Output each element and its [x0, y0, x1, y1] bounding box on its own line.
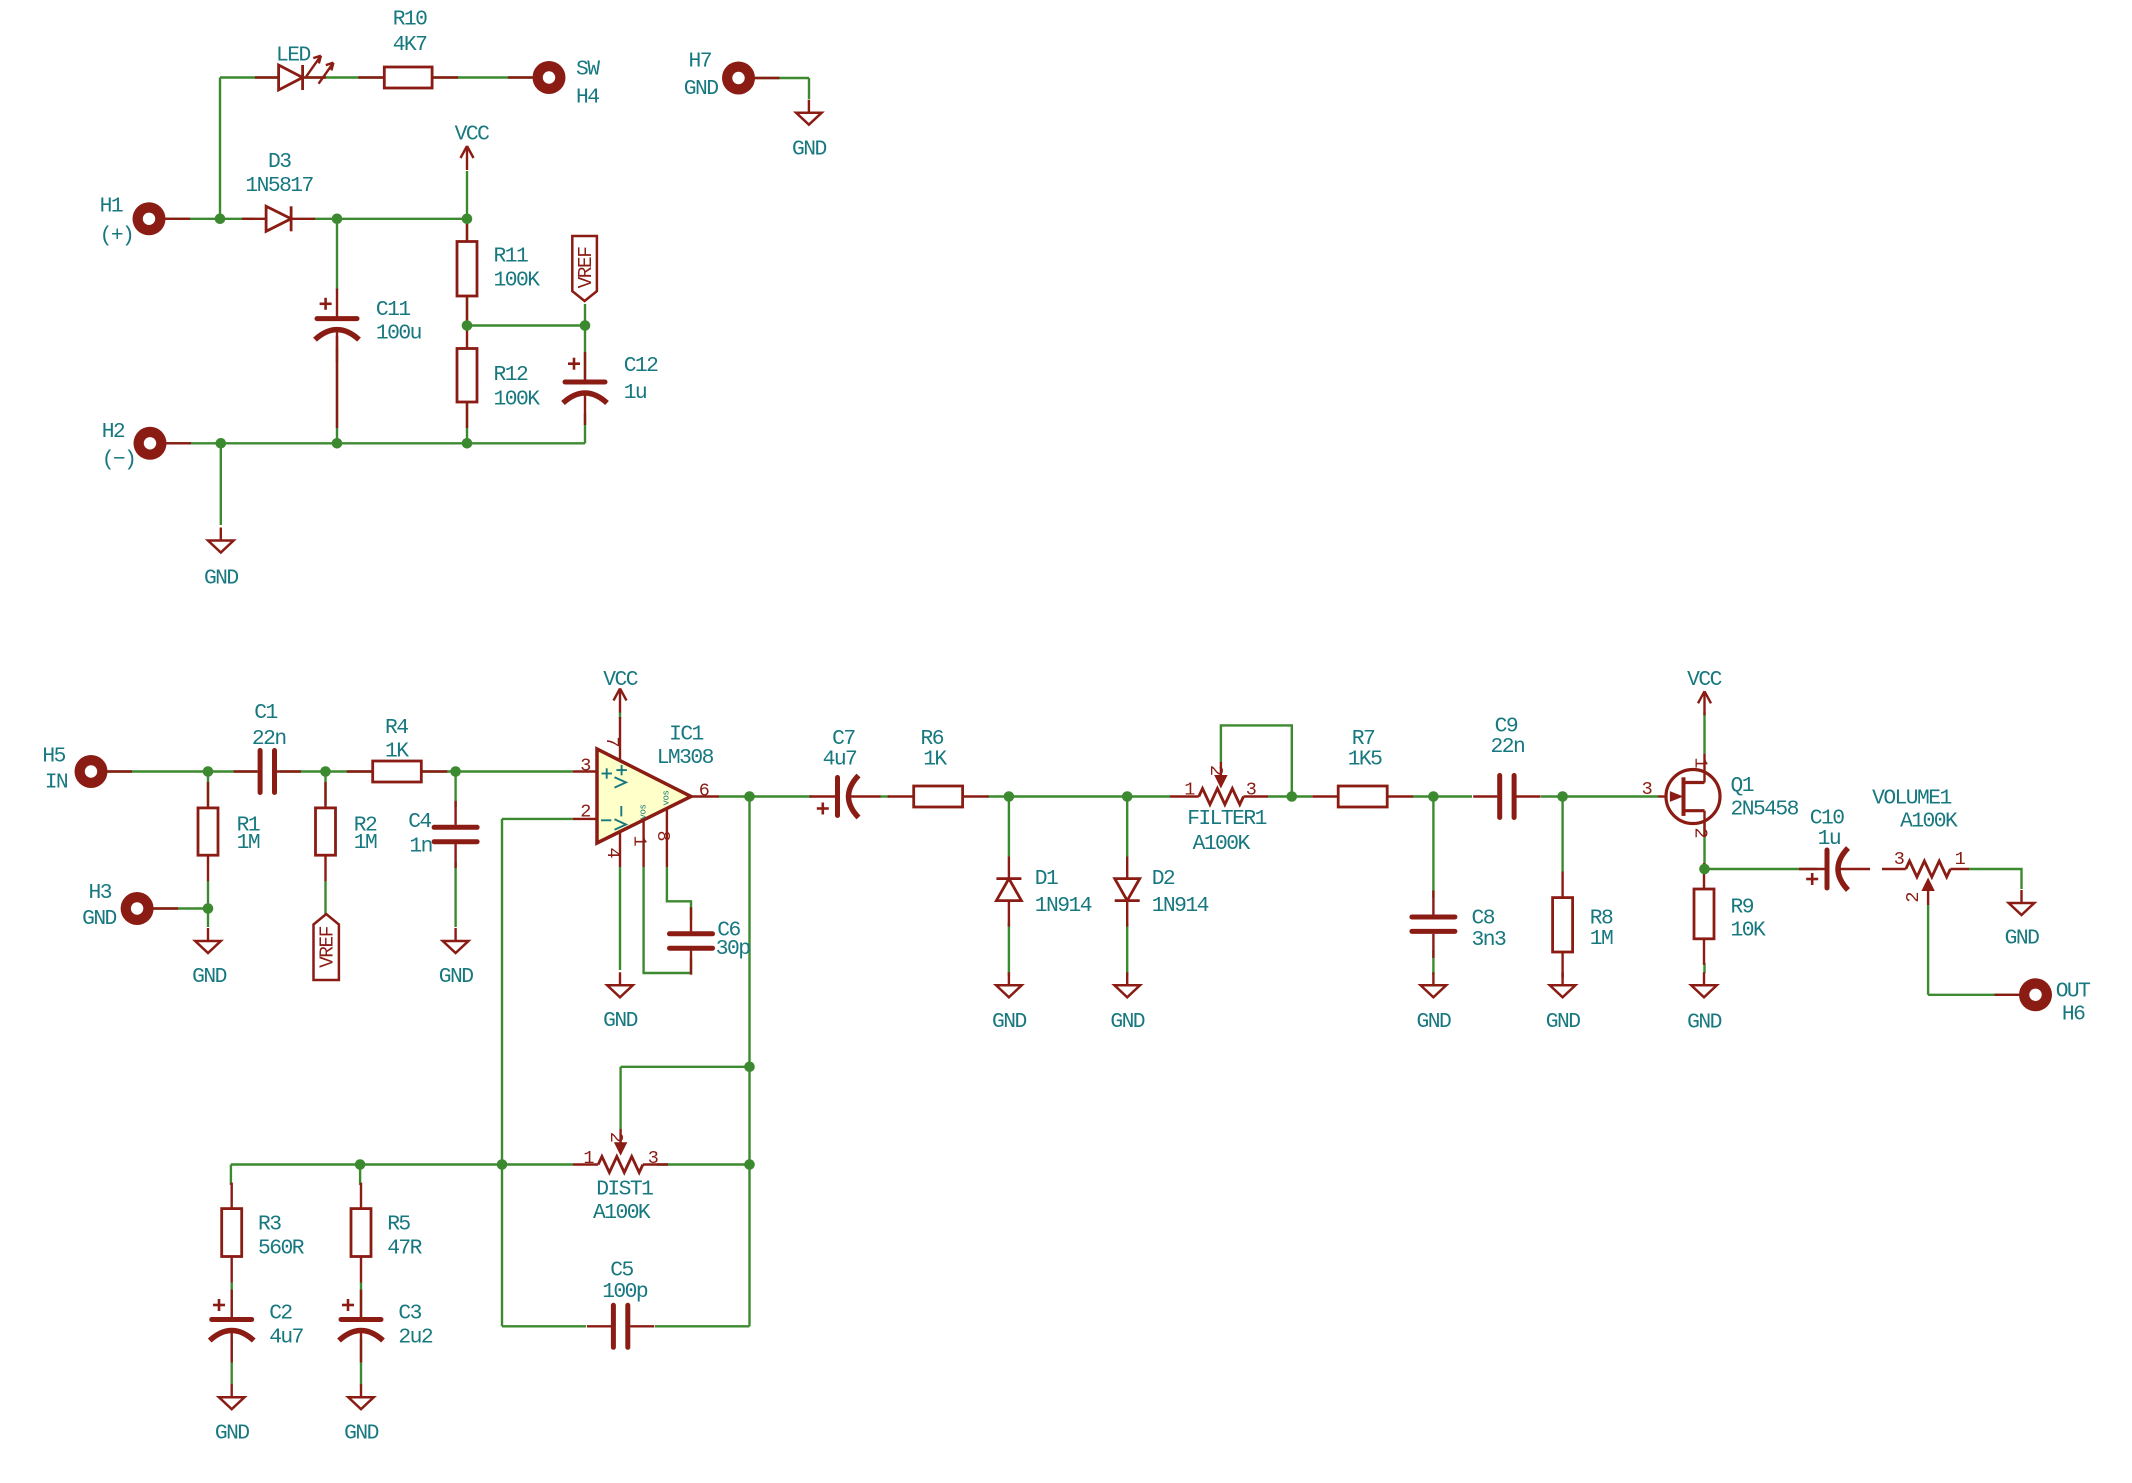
ground (D2) — [1114, 972, 1140, 997]
svg-text:22n: 22n — [252, 727, 286, 751]
wire — [584, 326, 586, 380]
svg-text:H7: H7 — [689, 49, 712, 73]
svg-text:C4: C4 — [408, 810, 431, 834]
svg-text:2N5458: 2N5458 — [1731, 797, 1799, 821]
svg-text:H1: H1 — [100, 195, 123, 219]
svg-text:6: 6 — [699, 781, 710, 802]
wire — [230, 1165, 232, 1186]
ground (R8) — [1550, 972, 1576, 997]
svg-text:1: 1 — [1690, 757, 1711, 768]
junction — [216, 438, 227, 449]
svg-text:1M: 1M — [1590, 927, 1613, 951]
op-amp IC1 LM308 — [573, 717, 719, 867]
resistor R5 — [351, 1183, 371, 1283]
svg-text:VREF: VREF — [316, 926, 338, 968]
svg-text:VCC: VCC — [603, 668, 637, 692]
wire — [621, 1066, 750, 1068]
svg-text:1: 1 — [629, 835, 650, 846]
svg-text:2: 2 — [1205, 765, 1226, 776]
junction — [355, 1159, 366, 1170]
wire — [324, 772, 326, 806]
svg-text:3: 3 — [648, 1148, 659, 1169]
wire — [655, 1325, 750, 1327]
wire — [219, 78, 221, 219]
junction — [1699, 864, 1710, 875]
svg-text:C3: C3 — [398, 1301, 421, 1325]
svg-text:8: 8 — [652, 830, 673, 841]
svg-text:47R: 47R — [387, 1237, 422, 1261]
svg-text:GND: GND — [2005, 926, 2039, 950]
svg-text:VREF: VREF — [575, 247, 597, 289]
global label VREF (power section) — [572, 236, 597, 301]
svg-text:GND: GND — [792, 137, 826, 161]
ground (R1) — [195, 928, 221, 953]
wire — [466, 171, 468, 219]
svg-text:2: 2 — [605, 1132, 626, 1143]
svg-text:IN: IN — [45, 771, 68, 795]
wire — [1541, 795, 1658, 797]
resistor R4 — [347, 761, 448, 782]
pad H1 (+) — [133, 202, 191, 235]
svg-text:1M: 1M — [237, 831, 260, 855]
wire — [1561, 973, 1563, 976]
svg-text:22n: 22n — [1491, 735, 1525, 759]
wire — [220, 76, 532, 78]
svg-text:C11: C11 — [376, 298, 410, 322]
wire — [880, 795, 889, 797]
wire — [1008, 797, 1010, 858]
wire — [502, 1325, 586, 1327]
junction — [580, 320, 591, 331]
pad H3 GND — [121, 892, 179, 925]
power flag VCC (IC1) — [614, 689, 627, 713]
svg-text:30p: 30p — [716, 937, 750, 961]
wire — [1703, 863, 1705, 869]
junction — [462, 438, 473, 449]
svg-text:GND: GND — [603, 1009, 637, 1033]
svg-text:2: 2 — [580, 802, 591, 823]
junction — [497, 1159, 508, 1170]
resistor R3 — [222, 1183, 242, 1283]
wire — [466, 349, 468, 403]
svg-text:A100K: A100K — [593, 1201, 651, 1225]
wire — [719, 795, 812, 797]
svg-text:1K: 1K — [923, 747, 947, 771]
wire — [207, 772, 209, 806]
wire — [667, 867, 691, 920]
global label VREF (R2) — [314, 914, 339, 980]
resistor R2 — [316, 782, 336, 881]
capacitor C11 100u — [315, 289, 359, 362]
svg-text:1N914: 1N914 — [1152, 894, 1209, 918]
svg-text:C1: C1 — [254, 701, 277, 725]
svg-text:100K: 100K — [494, 387, 541, 411]
wire — [619, 1067, 621, 1129]
svg-text:(+): (+) — [100, 224, 134, 248]
wire — [1705, 868, 1818, 870]
capacitor C3 2u2 — [339, 1290, 383, 1363]
svg-text:VCC: VCC — [455, 122, 489, 146]
junction — [744, 791, 755, 802]
svg-text:A100K: A100K — [1900, 810, 1958, 834]
capacitor C1 22n — [234, 751, 301, 793]
junction — [203, 766, 214, 777]
capacitor C4 1n — [434, 801, 477, 868]
potentiometer VOLUME1 A100K — [1882, 861, 1969, 905]
svg-text:1: 1 — [1184, 779, 1195, 800]
wire — [644, 867, 691, 973]
wire — [336, 219, 338, 290]
svg-text:IC1: IC1 — [669, 723, 703, 747]
svg-text:GND: GND — [1546, 1010, 1580, 1034]
svg-text:3: 3 — [1894, 849, 1905, 870]
wire — [1126, 797, 1128, 858]
svg-text:GND: GND — [1417, 1010, 1451, 1034]
wire — [360, 1339, 362, 1385]
wire — [153, 907, 208, 909]
svg-text:1: 1 — [1955, 849, 1966, 870]
wire — [315, 218, 467, 220]
ground (C3) — [348, 1384, 374, 1409]
potentiometer FILTER1 A100K — [1170, 762, 1268, 805]
capacitor C2 4u7 — [210, 1290, 254, 1363]
svg-text:R4: R4 — [385, 716, 408, 740]
wire — [1432, 950, 1434, 975]
ground (H2) — [208, 528, 234, 553]
wire — [360, 1282, 362, 1317]
wire — [1561, 797, 1563, 873]
wire — [1008, 923, 1010, 976]
svg-text:C8: C8 — [1472, 907, 1495, 931]
svg-text:1: 1 — [583, 1148, 594, 1169]
pad SW H4 — [508, 61, 566, 94]
junction — [203, 903, 214, 914]
capacitor C7 4u7 — [810, 776, 881, 818]
svg-text:4K7: 4K7 — [393, 33, 427, 57]
wire — [987, 795, 1170, 797]
pad H6 OUT — [1995, 978, 2053, 1011]
wire — [1703, 822, 1705, 869]
pad H2 (-) — [134, 427, 192, 460]
svg-text:GND: GND — [215, 1422, 249, 1446]
svg-text:10K: 10K — [1731, 919, 1766, 943]
svg-text:D2: D2 — [1152, 867, 1175, 891]
svg-text:2u2: 2u2 — [398, 1326, 432, 1350]
svg-text:GND: GND — [992, 1010, 1026, 1034]
wire — [280, 770, 346, 772]
svg-text:C12: C12 — [624, 354, 658, 378]
capacitor C12 1u — [563, 352, 607, 425]
wire — [346, 770, 573, 772]
resistor R1 — [198, 782, 218, 881]
wire — [755, 77, 809, 79]
resistor R6 — [888, 786, 989, 807]
wire — [1221, 725, 1292, 796]
resistor R9 — [1694, 863, 1714, 965]
diode D2 1N914 — [1115, 857, 1140, 927]
svg-text:OUT: OUT — [2056, 979, 2090, 1003]
svg-text:1M: 1M — [354, 831, 377, 855]
svg-text:1n: 1n — [409, 835, 431, 859]
svg-text:3: 3 — [580, 756, 591, 777]
ground (H7) — [796, 100, 822, 125]
capacitor C5 100p — [587, 1305, 654, 1347]
junction — [1287, 791, 1298, 802]
wire — [466, 296, 468, 326]
wire — [1927, 905, 1929, 995]
svg-text:R9: R9 — [1731, 895, 1754, 919]
svg-text:GND: GND — [82, 907, 116, 931]
wire — [454, 772, 456, 808]
svg-text:560R: 560R — [258, 1237, 305, 1261]
pad H5 IN — [75, 755, 133, 788]
svg-text:100p: 100p — [602, 1280, 648, 1304]
junction — [1122, 791, 1133, 802]
wire — [165, 218, 254, 220]
svg-text:H6: H6 — [2062, 1003, 2085, 1027]
wire — [502, 818, 573, 820]
junction — [462, 214, 473, 225]
wire — [220, 443, 222, 525]
svg-text:H4: H4 — [576, 85, 599, 109]
ground (C8) — [1421, 972, 1447, 997]
svg-text:1N914: 1N914 — [1035, 894, 1092, 918]
svg-text:LM308: LM308 — [657, 746, 714, 770]
svg-text:2: 2 — [1903, 891, 1924, 902]
ground (C2) — [219, 1384, 245, 1409]
svg-text:2: 2 — [1690, 827, 1711, 838]
IC1 internal symbols — [601, 765, 672, 830]
svg-text:4u7: 4u7 — [823, 747, 857, 771]
svg-text:C2: C2 — [269, 1301, 292, 1325]
wire — [1969, 869, 2022, 889]
svg-text:3: 3 — [1246, 779, 1257, 800]
resistor R12 — [457, 323, 477, 429]
svg-text:VCC: VCC — [1687, 668, 1721, 692]
junction — [320, 766, 331, 777]
wire — [107, 770, 257, 772]
svg-text:7: 7 — [601, 736, 622, 747]
resistor R10 — [358, 67, 458, 88]
ground (VOLUME1) — [2009, 890, 2035, 915]
diode D3 1N5817 — [242, 206, 315, 231]
svg-text:R5: R5 — [387, 1213, 410, 1237]
svg-text:100u: 100u — [376, 322, 421, 346]
capacitor C9 22n — [1473, 776, 1540, 818]
svg-text:GND: GND — [1110, 1010, 1144, 1034]
wire — [1432, 797, 1434, 899]
wire — [359, 1165, 361, 1186]
junction — [1557, 791, 1568, 802]
svg-text:H3: H3 — [89, 881, 112, 905]
C11 lower pin — [336, 336, 338, 428]
junction — [744, 1159, 755, 1170]
wire — [454, 862, 456, 927]
svg-text:GND: GND — [439, 965, 473, 989]
svg-text:H5: H5 — [42, 745, 65, 769]
resistor R7 — [1312, 786, 1413, 807]
junction — [215, 214, 226, 225]
svg-text:1K5: 1K5 — [1348, 747, 1382, 771]
svg-text:4: 4 — [602, 847, 623, 858]
wire — [1703, 712, 1705, 754]
svg-text:VOLUME1: VOLUME1 — [1872, 786, 1951, 810]
svg-text:R3: R3 — [258, 1213, 281, 1237]
svg-text:3: 3 — [1642, 779, 1653, 800]
wire — [466, 402, 468, 443]
svg-text:GND: GND — [1687, 1011, 1721, 1035]
junction — [1428, 791, 1439, 802]
svg-text:1K: 1K — [385, 740, 409, 764]
ground (IC1 pin4) — [607, 972, 633, 997]
svg-text:(−): (−) — [102, 448, 136, 472]
wire — [584, 413, 586, 443]
wire — [619, 867, 621, 970]
capacitor C10 1u — [1799, 848, 1870, 890]
wire — [207, 909, 209, 928]
wire — [619, 712, 621, 719]
svg-text:Q1: Q1 — [1731, 774, 1754, 798]
wire — [230, 1282, 232, 1317]
svg-text:GND: GND — [684, 77, 718, 101]
wire — [324, 881, 326, 914]
wire — [207, 881, 209, 909]
svg-text:D1: D1 — [1035, 867, 1058, 891]
junction — [744, 1062, 755, 1073]
resistor R8 — [1553, 872, 1573, 978]
transistor Q1 2N5458 (JFET) — [1658, 754, 1720, 837]
svg-text:FILTER1: FILTER1 — [1187, 807, 1266, 831]
svg-text:H2: H2 — [102, 420, 125, 444]
wire — [1703, 963, 1705, 973]
resistor R11 — [457, 216, 477, 323]
wire — [336, 347, 338, 443]
wire — [467, 324, 585, 326]
svg-text:R12: R12 — [494, 363, 528, 387]
wire — [501, 819, 503, 1326]
junction — [462, 320, 473, 331]
ground (R9) — [1691, 972, 1717, 997]
ground (D1) — [996, 972, 1022, 997]
svg-text:1u: 1u — [624, 381, 646, 405]
svg-text:vos: vos — [662, 790, 672, 805]
wire — [1413, 795, 1472, 797]
potentiometer DIST1 A100K — [573, 1129, 668, 1173]
LED indicator LED — [255, 56, 333, 90]
svg-text:R11: R11 — [494, 244, 528, 268]
svg-text:GND: GND — [204, 567, 238, 591]
svg-text:LED: LED — [276, 44, 310, 68]
wire — [1268, 795, 1312, 797]
wire — [165, 442, 585, 444]
capacitor C8 3n3 — [1412, 891, 1455, 958]
svg-text:D3: D3 — [268, 150, 291, 174]
junction — [332, 214, 343, 225]
ground (C4) — [443, 928, 469, 953]
power flag VCC (Q1) — [1698, 691, 1711, 715]
power flag VCC (top) — [461, 146, 474, 170]
wire — [466, 219, 468, 242]
wire — [808, 78, 810, 99]
capacitor C6 30p — [670, 907, 713, 974]
svg-text:R10: R10 — [393, 8, 427, 32]
junction — [332, 438, 343, 449]
junction — [1004, 791, 1015, 802]
wire — [1126, 923, 1128, 976]
svg-text:GND: GND — [192, 965, 226, 989]
svg-text:GND: GND — [344, 1422, 378, 1446]
diode D1 1N914 — [996, 857, 1021, 927]
svg-text:SW: SW — [576, 58, 600, 82]
wire — [657, 1163, 750, 1165]
wire — [748, 797, 750, 1327]
junction — [450, 766, 461, 777]
wire — [584, 304, 586, 326]
svg-text:DIST1: DIST1 — [596, 1178, 653, 1202]
wire — [231, 1163, 573, 1165]
svg-text:100K: 100K — [494, 269, 541, 293]
svg-text:4u7: 4u7 — [269, 1326, 303, 1350]
svg-text:vos: vos — [639, 804, 649, 819]
pad H7 GND — [722, 62, 780, 95]
svg-text:3n3: 3n3 — [1472, 928, 1506, 952]
svg-text:1N5817: 1N5817 — [245, 174, 313, 198]
svg-text:1u: 1u — [1818, 827, 1840, 851]
wire — [230, 1339, 232, 1385]
svg-text:A100K: A100K — [1193, 832, 1251, 856]
wire — [1928, 994, 2019, 996]
